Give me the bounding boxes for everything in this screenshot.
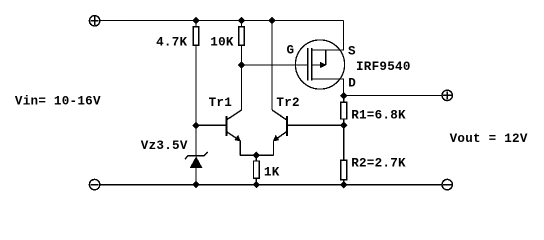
resistor 10K	[239, 21, 245, 110]
svg-text:R2=2.7K: R2=2.7K	[351, 157, 406, 171]
node dot top rail Tr2 collector	[268, 17, 275, 24]
wire gate	[242, 64, 308, 66]
node dot drain junction	[340, 92, 347, 99]
node dot emitter junction	[253, 152, 260, 159]
svg-text:4.7K: 4.7K	[156, 36, 187, 50]
input terminal plus	[89, 16, 99, 26]
svg-text:Vz3.5V: Vz3.5V	[141, 139, 188, 153]
wire Tr2 collector	[271, 21, 273, 110]
wire drain to output	[344, 95, 442, 97]
output terminal minus	[442, 179, 452, 189]
op-amp: MOSFET U1 IRF9540 body	[295, 40, 344, 89]
wire source lead	[312, 21, 344, 51]
resistor R1	[341, 96, 347, 161]
wire Tr1 base	[196, 124, 226, 126]
svg-text:10K: 10K	[210, 36, 234, 50]
svg-text:R1=6.8K: R1=6.8K	[351, 108, 406, 122]
transistor IRF9540 gate bar	[307, 48, 309, 81]
resistor R 4.7K	[193, 21, 199, 156]
node dot bottom rail 1K	[253, 181, 260, 188]
wire top rail	[100, 20, 344, 22]
wire body tie	[312, 50, 327, 68]
node dot R1 R2 junction	[340, 122, 347, 129]
node dot bottom rail zener	[192, 181, 199, 188]
wire bottom rail	[100, 184, 442, 186]
svg-text:1K: 1K	[264, 166, 280, 180]
svg-text:Vout = 12V: Vout = 12V	[450, 132, 528, 146]
svg-text:Tr2: Tr2	[276, 96, 299, 110]
input terminal minus	[89, 179, 99, 189]
svg-text:S: S	[348, 45, 356, 59]
output terminal plus	[442, 90, 452, 100]
svg-text:D: D	[348, 77, 356, 91]
transistor IRF9540 channel bar	[311, 48, 313, 81]
wire drain lead	[312, 79, 344, 96]
node dot top rail 4.7K	[192, 17, 199, 24]
svg-text:Vin= 10-16V: Vin= 10-16V	[15, 94, 101, 108]
wire emitter rail	[240, 154, 273, 156]
node dot top rail 10K	[238, 17, 245, 24]
node dot gate junction	[238, 61, 245, 68]
diode zener D1 Vz3.5V	[185, 152, 208, 185]
svg-text:IRF9540: IRF9540	[356, 60, 411, 74]
node dot Tr1 base junction	[192, 122, 199, 129]
wire Tr2 base	[287, 124, 344, 126]
svg-text:G: G	[287, 44, 295, 58]
svg-text:Tr1: Tr1	[209, 96, 233, 110]
resistor R2	[341, 160, 347, 184]
resistor 1K	[254, 155, 260, 184]
transistor Q2 Tr2	[272, 110, 287, 155]
transistor Q1 Tr1	[226, 110, 241, 155]
node dot bottom rail R2	[340, 181, 347, 188]
